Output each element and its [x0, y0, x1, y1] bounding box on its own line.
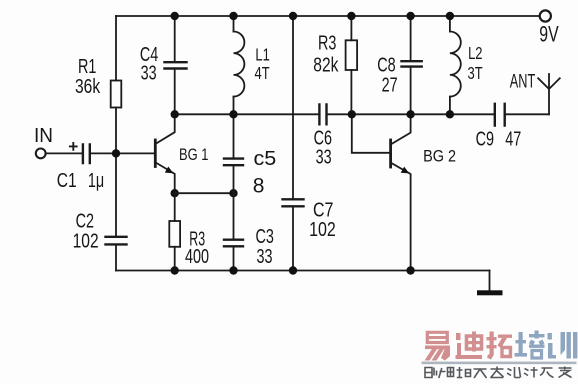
- wire top rail to C4: [174, 16, 176, 61]
- wire BG2 base feed: [352, 114, 390, 153]
- transistor BG1 collector: [157, 114, 175, 143]
- junction BG2 collector node: [406, 110, 414, 118]
- resistor R1: [111, 81, 122, 108]
- svg-text:C2: C2: [76, 209, 94, 232]
- inductor L2: [450, 32, 461, 97]
- watermark char 易: [425, 332, 451, 360]
- wire node to C5: [233, 114, 235, 158]
- wire L2 top: [449, 16, 451, 32]
- capacitor C9: [495, 104, 505, 126]
- junction top rail / C7: [289, 12, 297, 20]
- wire C9 to antenna: [506, 113, 549, 115]
- watermark underline: [422, 362, 577, 365]
- wire L1 top: [233, 16, 235, 32]
- junction bottom rail / C7: [289, 266, 297, 274]
- svg-text:L2: L2: [468, 44, 482, 64]
- wire C8 to mid node: [410, 67, 412, 114]
- transistor BG2 emitter: [392, 163, 411, 270]
- terminal 9V circle: [540, 10, 551, 21]
- node input / BG1 base: [112, 149, 120, 157]
- wire C5 node to C3: [233, 193, 235, 239]
- svg-text:36k: 36k: [75, 75, 100, 97]
- wire C2 to bottom rail: [115, 246, 117, 271]
- svg-text:102: 102: [309, 218, 336, 240]
- transistor BG2 collector: [392, 114, 411, 144]
- capacitor C8: [402, 61, 422, 66]
- junction bottom rail / R3 400: [171, 266, 179, 274]
- capacitor C6: [319, 104, 326, 124]
- transistor BG1 base bar: [154, 140, 157, 167]
- junction top rail / R3 82k: [347, 12, 355, 20]
- svg-text:82k: 82k: [313, 54, 338, 76]
- wire top rail to R3 82k: [350, 16, 352, 40]
- wire top rail to C8: [410, 16, 412, 60]
- svg-text:8: 8: [253, 175, 265, 198]
- ground symbol: [477, 290, 503, 295]
- capacitor C1: [83, 145, 90, 164]
- svg-text:33: 33: [257, 245, 273, 268]
- junction L1 / C5 node: [229, 110, 237, 118]
- wire mid rail collector to C6: [175, 113, 319, 115]
- svg-text:3T: 3T: [468, 64, 483, 84]
- wire bottom ground rail: [116, 270, 490, 272]
- junction R3 82k / BG2 base feed: [348, 110, 356, 118]
- node BG1 emitter: [171, 189, 179, 197]
- capacitor C3: [224, 240, 243, 247]
- svg-text:33: 33: [141, 61, 157, 84]
- svg-text:BG 1: BG 1: [179, 145, 208, 164]
- svg-text:47: 47: [505, 127, 521, 150]
- capacitor C7: [283, 199, 304, 206]
- wire R3 82k to mid node: [350, 70, 352, 114]
- wire R3 to bottom rail: [174, 247, 176, 271]
- wire C1 to BG1 base: [91, 152, 154, 154]
- transistor BG1 emitter arrow: [165, 167, 174, 174]
- junction top rail / L2: [446, 12, 454, 20]
- svg-text:102: 102: [73, 230, 99, 252]
- svg-text:C9: C9: [476, 127, 494, 150]
- junction bottom rail / BG2 emitter: [406, 266, 414, 274]
- terminal IN circle: [36, 149, 46, 159]
- capacitor C4: [165, 62, 187, 68]
- wire top supply rail: [116, 15, 539, 17]
- wire left rail upper (top rail to R1): [115, 16, 117, 81]
- svg-text:IN: IN: [34, 125, 53, 148]
- watermark 易迪拓培训 logo: [422, 331, 578, 380]
- svg-text:33: 33: [316, 145, 332, 168]
- watermark char 拓: [487, 332, 513, 360]
- resistor R3 (82k): [346, 40, 358, 70]
- wire emitter to C5 bottom: [175, 192, 234, 194]
- wire R1 to input node: [115, 108, 117, 154]
- watermark char 训: [548, 332, 578, 359]
- svg-text:ANT: ANT: [510, 71, 536, 92]
- transistor BG1 emitter: [157, 163, 175, 193]
- watermark tagline 射频和天线设计专家: [425, 367, 572, 380]
- svg-text:R3: R3: [318, 31, 336, 54]
- inductor L1: [234, 32, 245, 97]
- wire IN to C1: [46, 152, 82, 154]
- transistor BG2 base bar: [389, 140, 392, 167]
- capacitor C1 polarity plus: [70, 143, 77, 150]
- junction top rail / L1: [229, 12, 237, 20]
- svg-text:4T: 4T: [255, 64, 270, 84]
- wire C7 to bottom rail: [292, 207, 294, 271]
- wire top rail to C7: [292, 16, 294, 199]
- svg-text:1μ: 1μ: [88, 169, 104, 192]
- wire C6 to BG2 region: [328, 113, 495, 115]
- junction top rail / C4: [171, 12, 179, 20]
- svg-text:L1: L1: [255, 46, 269, 66]
- wire L1 bottom: [233, 97, 235, 115]
- svg-text:R1: R1: [78, 55, 96, 78]
- svg-text:400: 400: [185, 245, 209, 268]
- wire ground drop: [489, 271, 491, 291]
- svg-text:C1: C1: [57, 169, 77, 191]
- capacitor C5: [224, 159, 243, 166]
- transistor BG2 emitter arrow: [401, 167, 410, 174]
- svg-text:9V: 9V: [539, 23, 559, 47]
- watermark char 迪: [456, 332, 483, 360]
- junction top rail / C8: [406, 12, 414, 20]
- wire L2 bottom: [449, 97, 451, 115]
- resistor R3 (400): [169, 221, 180, 247]
- wire emitter node to R3: [174, 193, 176, 221]
- watermark char 培: [515, 331, 545, 359]
- antenna ANT: [538, 74, 560, 114]
- wire C3 to bottom rail: [233, 247, 235, 271]
- wire input node down to C2: [115, 153, 117, 236]
- junction bottom rail / C3: [229, 266, 237, 274]
- svg-text:BG 2: BG 2: [423, 147, 456, 165]
- svg-text:c5: c5: [254, 148, 277, 170]
- wire C4 to collector node: [174, 70, 176, 115]
- svg-text:27: 27: [382, 73, 398, 96]
- node C5 bottom: [229, 189, 237, 197]
- junction BG1 collector node: [171, 110, 179, 118]
- wire C5 to emitter link: [233, 166, 235, 193]
- capacitor C2: [106, 237, 127, 245]
- junction L2 / C9 node: [446, 110, 454, 118]
